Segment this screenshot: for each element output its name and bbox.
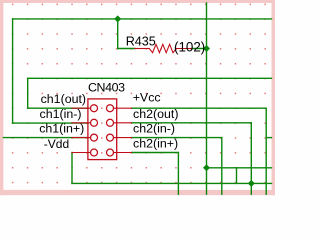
wire horizontal y168 — [207, 167, 272, 169]
svg-text:(102): (102) — [174, 40, 205, 55]
pin circle 7 — [91, 149, 98, 156]
wire row2 left (ch1(in-)) — [13, 122, 88, 124]
svg-text:CN403: CN403 — [88, 81, 125, 95]
wire short vertical T — [236, 168, 238, 184]
pin stub right 1 — [114, 107, 132, 109]
wire vertical A (ch1(out) riser) — [27, 78, 29, 108]
wire row3 left (ch1(in+)) — [3, 137, 88, 139]
wire resistor left connect — [118, 48, 135, 50]
pin circle 5 — [91, 134, 98, 141]
junction J2 resistor-v1 — [203, 45, 210, 52]
svg-text:ch1(out): ch1(out) — [41, 92, 86, 106]
junction J4 bottom — [248, 180, 255, 187]
pin stub left 2 — [72, 122, 91, 124]
wire horizontal y78 (ch1(out) net) — [28, 77, 272, 79]
svg-text:R435: R435 — [126, 35, 156, 49]
canvas background — [0, 0, 275, 197]
junction J3 v1-h168 — [203, 164, 210, 171]
wire +Vcc stub to right edge — [266, 137, 271, 139]
pin stub left 3 — [72, 137, 91, 139]
wire resistor right connect — [192, 48, 207, 50]
svg-text:ch2(in+): ch2(in+) — [133, 137, 178, 151]
pin stub right 3 — [114, 137, 132, 139]
wire -Vdd vertical — [71, 153, 73, 184]
svg-text:+Vcc: +Vcc — [133, 91, 161, 105]
connector CN403 body — [88, 99, 117, 160]
resistor R435 body — [135, 48, 149, 50]
wire row1 right (+Vcc) — [132, 107, 267, 109]
pin circle 1 — [91, 105, 98, 112]
pink border band right — [272, 0, 276, 197]
svg-text:-Vdd: -Vdd — [44, 137, 69, 151]
grid dots — [12, 4, 266, 184]
svg-text:ch1(in+): ch1(in+) — [39, 122, 84, 136]
pin circle 4 — [107, 119, 114, 126]
pin stub right 4 — [114, 152, 132, 154]
wire ch2(in-) vertical drop — [221, 138, 223, 195]
pin circle 3 — [91, 119, 98, 126]
wire left vertical — [12, 19, 14, 123]
pin circle 8 — [107, 149, 114, 156]
pin stub right 2 — [114, 122, 132, 124]
wire +Vcc vertical drop — [265, 108, 267, 194]
svg-text:ch1(in-): ch1(in-) — [40, 107, 82, 121]
pin circle 2 — [107, 105, 114, 112]
junction J1 — [114, 15, 121, 22]
wire junction drop to resistor — [117, 19, 119, 49]
pin stub left 4 — [72, 152, 91, 154]
pink border band bottom — [0, 190, 275, 195]
svg-text:ch2(in-): ch2(in-) — [133, 122, 175, 136]
wire row2 right (ch2(out)) — [132, 122, 252, 124]
pink border band left — [0, 0, 3, 197]
wire long vertical v1 — [206, 3, 208, 194]
pin circle 6 — [107, 134, 114, 141]
pin stub left 1 — [72, 107, 91, 109]
wire row3 right (ch2(in-)) — [132, 137, 222, 139]
wire ch2(out) vertical drop — [250, 123, 252, 194]
wire row4 right (ch2(in+)) — [132, 152, 179, 154]
svg-text:ch2(out): ch2(out) — [133, 107, 178, 121]
wire top horizontal net R435-left — [13, 18, 272, 20]
wire bottom horizontal — [72, 182, 272, 184]
wire row1 left (ch1(out)) — [28, 107, 88, 109]
wire ch2(in+) vertical drop — [177, 153, 179, 195]
pink border band top — [0, 0, 275, 3]
